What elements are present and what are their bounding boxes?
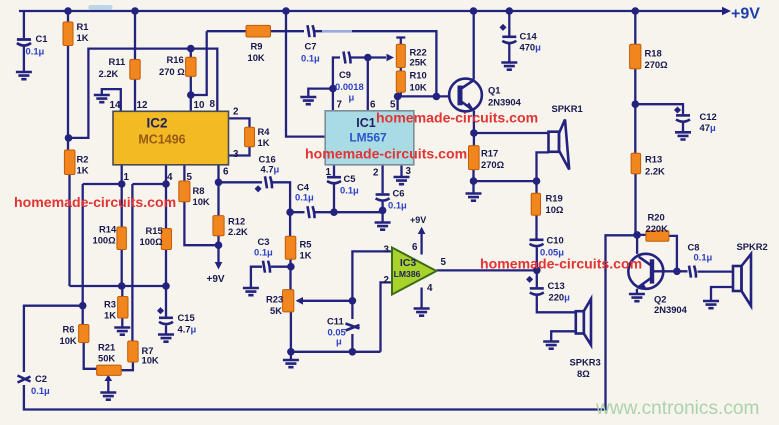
svg-text:10K: 10K: [60, 335, 77, 346]
svg-text:R15: R15: [146, 225, 163, 236]
svg-text:+9V: +9V: [731, 6, 760, 23]
svg-text:1: 1: [326, 167, 332, 178]
svg-text:8Ω: 8Ω: [577, 368, 590, 379]
svg-text:C14: C14: [520, 31, 538, 42]
svg-text:0.1μ: 0.1μ: [26, 46, 45, 57]
svg-text:R23: R23: [266, 294, 283, 305]
svg-text:C9: C9: [339, 69, 351, 80]
svg-text:8: 8: [210, 99, 216, 110]
svg-text:10Ω: 10Ω: [546, 204, 564, 215]
svg-text:2.2K: 2.2K: [99, 68, 119, 79]
svg-text:SPKR2: SPKR2: [737, 241, 768, 252]
svg-text:R13: R13: [645, 154, 662, 165]
svg-text:5K: 5K: [270, 305, 282, 316]
svg-text:10K: 10K: [193, 196, 210, 207]
svg-text:C6: C6: [393, 188, 405, 199]
svg-text:10K: 10K: [248, 52, 265, 63]
svg-text:2: 2: [373, 168, 379, 179]
svg-text:R20: R20: [648, 212, 665, 223]
svg-text:50K: 50K: [98, 353, 115, 364]
svg-text:3: 3: [384, 245, 390, 256]
svg-text:1: 1: [124, 172, 130, 183]
svg-text:SPKR1: SPKR1: [552, 103, 583, 114]
svg-text:R4: R4: [258, 126, 271, 137]
svg-text:C10: C10: [547, 235, 564, 246]
svg-text:IC1: IC1: [356, 116, 376, 130]
svg-text:SPKR3: SPKR3: [570, 357, 601, 368]
svg-text:3: 3: [233, 149, 239, 160]
svg-text:LM567: LM567: [349, 131, 387, 145]
svg-text:R18: R18: [645, 48, 662, 59]
svg-text:www.cntronics.com: www.cntronics.com: [595, 398, 759, 419]
svg-text:C3: C3: [258, 236, 270, 247]
svg-text:C2: C2: [35, 373, 47, 384]
svg-text:2: 2: [233, 107, 239, 118]
svg-text:LM386: LM386: [394, 269, 421, 279]
svg-text:14: 14: [110, 100, 121, 111]
svg-text:270Ω: 270Ω: [481, 159, 505, 170]
svg-text:100Ω: 100Ω: [140, 236, 164, 247]
svg-text:2.2K: 2.2K: [645, 166, 665, 177]
svg-text:Q1: Q1: [488, 85, 501, 96]
svg-text:0.1μ: 0.1μ: [340, 185, 359, 196]
svg-text:R16: R16: [167, 54, 184, 65]
svg-text:R19: R19: [546, 193, 563, 204]
svg-text:10: 10: [194, 100, 205, 111]
svg-text:5: 5: [187, 172, 193, 183]
svg-text:10K: 10K: [410, 82, 427, 93]
svg-text:270Ω: 270Ω: [645, 59, 669, 70]
svg-text:μ: μ: [336, 336, 342, 347]
svg-text:270 Ω: 270 Ω: [159, 66, 185, 77]
svg-text:R3: R3: [104, 299, 116, 310]
svg-text:47μ: 47μ: [700, 122, 716, 133]
svg-text:homemade-circuits.com: homemade-circuits.com: [480, 256, 642, 272]
svg-text:Q2: Q2: [654, 294, 667, 305]
svg-text:R1: R1: [77, 21, 89, 32]
svg-text:IC2: IC2: [146, 116, 167, 131]
svg-text:2N3904: 2N3904: [488, 96, 522, 107]
svg-text:0.1μ: 0.1μ: [31, 385, 50, 396]
svg-text:+9V: +9V: [410, 215, 426, 225]
svg-text:1K: 1K: [300, 250, 312, 261]
svg-text:+9V: +9V: [207, 274, 225, 285]
svg-text:2N3904: 2N3904: [654, 304, 688, 315]
svg-text:0.1μ: 0.1μ: [301, 53, 320, 64]
svg-text:R10: R10: [410, 70, 427, 81]
svg-text:homemade-circuits.com: homemade-circuits.com: [14, 194, 176, 210]
svg-text:0.1μ: 0.1μ: [388, 200, 407, 211]
svg-text:C15: C15: [178, 312, 195, 323]
svg-text:C12: C12: [700, 111, 717, 122]
svg-text:25K: 25K: [410, 57, 427, 68]
svg-text:R11: R11: [109, 56, 126, 67]
svg-text:4: 4: [167, 172, 173, 183]
svg-text:6: 6: [223, 167, 229, 178]
svg-text:homemade-circuits.com: homemade-circuits.com: [305, 146, 467, 162]
svg-text:10K: 10K: [142, 355, 159, 366]
svg-text:4.7μ: 4.7μ: [178, 324, 197, 335]
svg-text:5: 5: [441, 257, 447, 268]
svg-text:0.1μ: 0.1μ: [694, 252, 713, 263]
svg-text:12: 12: [137, 100, 148, 111]
svg-text:4: 4: [427, 283, 433, 294]
svg-text:C1: C1: [36, 33, 48, 44]
svg-text:100Ω: 100Ω: [93, 235, 117, 246]
svg-text:IC3: IC3: [400, 257, 417, 269]
svg-text:0.1μ: 0.1μ: [295, 192, 314, 203]
svg-text:4.7μ: 4.7μ: [261, 164, 280, 175]
svg-text:1K: 1K: [77, 32, 89, 43]
svg-text:R8: R8: [193, 185, 205, 196]
svg-text:2: 2: [384, 275, 390, 286]
svg-text:6: 6: [412, 242, 418, 253]
svg-text:1K: 1K: [77, 165, 89, 176]
svg-text:R17: R17: [481, 148, 498, 159]
svg-text:R2: R2: [77, 154, 89, 165]
svg-text:0.0018: 0.0018: [335, 81, 364, 92]
svg-text:1K: 1K: [104, 310, 116, 321]
svg-text:220μ: 220μ: [549, 292, 571, 303]
svg-text:R5: R5: [300, 239, 312, 250]
svg-text:3: 3: [406, 166, 412, 177]
svg-text:7: 7: [337, 100, 343, 111]
svg-text:2.2K: 2.2K: [228, 226, 248, 237]
svg-text:0.1μ: 0.1μ: [254, 247, 273, 258]
svg-text:470μ: 470μ: [520, 42, 542, 53]
svg-text:R14: R14: [99, 224, 117, 235]
svg-text:220K: 220K: [646, 223, 669, 234]
svg-text:R21: R21: [98, 342, 115, 353]
svg-text:μ: μ: [349, 92, 355, 103]
svg-text:C5: C5: [344, 173, 356, 184]
svg-text:C7: C7: [305, 41, 317, 52]
svg-text:C11: C11: [327, 316, 344, 327]
svg-text:R6: R6: [63, 324, 75, 335]
svg-text:R9: R9: [251, 41, 263, 52]
svg-text:1K: 1K: [258, 137, 270, 148]
svg-text:MC1496: MC1496: [138, 133, 185, 147]
svg-text:C13: C13: [548, 280, 565, 291]
svg-text:homemade-circuits.com: homemade-circuits.com: [376, 110, 538, 126]
svg-text:R12: R12: [228, 216, 245, 227]
